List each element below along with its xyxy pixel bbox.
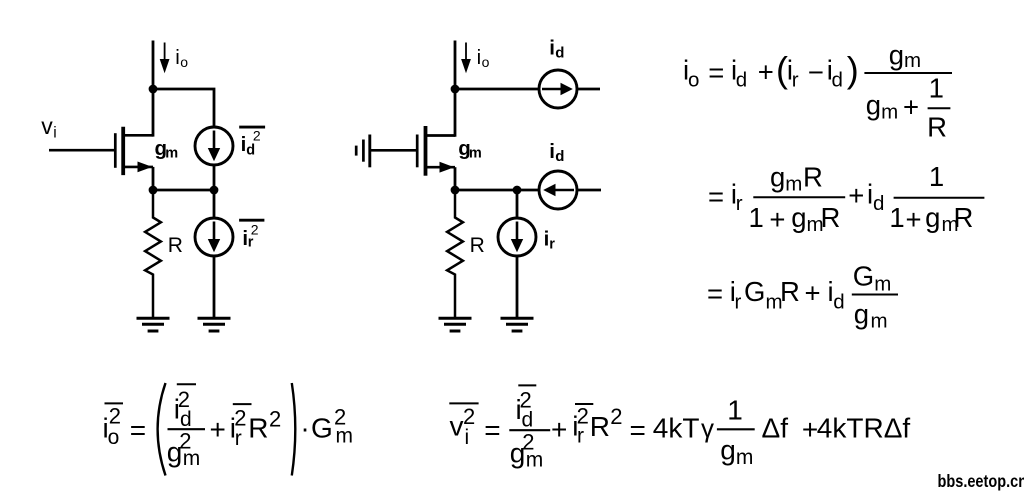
svg-text:d: d (555, 148, 564, 165)
label io middle (477, 46, 490, 70)
svg-text:o: o (482, 54, 490, 70)
label id lower (549, 140, 564, 165)
current source id top (539, 70, 577, 108)
svg-text:1: 1 (889, 202, 904, 233)
transistor M2 channel bar (424, 126, 428, 176)
wire ir to ground (516, 256, 519, 319)
wire id2 to lower node (213, 165, 216, 192)
svg-text:v: v (450, 410, 464, 441)
ground middle R (439, 318, 472, 331)
wire gate lead middle (371, 149, 417, 152)
svg-text:r: r (792, 68, 799, 91)
EQUATION 1: io = id + (ir - id) gm/(gm+1/R) (683, 39, 952, 142)
svg-text:g: g (925, 202, 940, 233)
svg-text:m: m (881, 100, 898, 123)
svg-text:R: R (248, 413, 268, 444)
svg-text:γ: γ (701, 413, 714, 443)
current source id lower (539, 171, 577, 209)
wire M2 drain lead (426, 134, 456, 137)
label id top (549, 36, 564, 61)
EQUATION 3: = ir GmR + id Gm/gm (707, 260, 898, 332)
node branch left (210, 186, 219, 195)
svg-text:m: m (871, 309, 888, 332)
svg-text:g: g (889, 39, 904, 70)
svg-text:i: i (53, 124, 56, 141)
svg-text:m: m (183, 447, 201, 470)
svg-text:o: o (688, 68, 699, 91)
svg-text:+: + (210, 414, 226, 445)
svg-text:=: = (484, 415, 500, 446)
svg-text:1: 1 (929, 161, 944, 192)
svg-text:R: R (954, 202, 974, 233)
wire after id top (577, 88, 600, 91)
svg-text:G: G (744, 276, 765, 307)
svg-text:m: m (469, 146, 482, 162)
svg-text:+: + (805, 278, 821, 309)
wire top node horizontal (153, 89, 214, 128)
svg-text:bbs.eetop.cn: bbs.eetop.cn (938, 472, 1024, 492)
svg-text:m: m (336, 425, 354, 448)
node ir branch (513, 186, 522, 195)
svg-text:−: − (808, 57, 824, 88)
label id2 (241, 128, 261, 159)
wire drain vertical middle (454, 41, 457, 137)
svg-text:+: + (802, 414, 818, 445)
svg-text:1: 1 (749, 202, 764, 233)
svg-text:m: m (165, 146, 178, 162)
wire gate lead left (49, 149, 114, 152)
svg-text:o: o (108, 426, 120, 449)
current source id2 (195, 127, 233, 165)
EQUATION 4: io2 = (id2/gm2 + ir2 R2) Gm2 (103, 383, 354, 476)
svg-text:g: g (866, 90, 881, 121)
svg-text:+: + (848, 180, 864, 211)
svg-text:g: g (770, 162, 785, 193)
wire drain vertical to io terminal (152, 41, 155, 137)
svg-text:R: R (821, 202, 841, 233)
wire ir2 to ground (213, 256, 216, 319)
svg-text:+: + (551, 414, 567, 445)
svg-text:m: m (874, 272, 891, 295)
svg-text:=: = (708, 57, 724, 88)
svg-text:o: o (180, 54, 188, 70)
arrow io middle (461, 43, 471, 74)
transistor M1 channel bar (121, 127, 125, 175)
svg-text:r: r (735, 291, 742, 314)
node top middle (451, 85, 460, 94)
svg-text:R: R (590, 411, 610, 442)
svg-text:d: d (832, 68, 843, 91)
svg-text:G: G (853, 260, 874, 291)
svg-text:R: R (470, 234, 485, 257)
wire M1 drain lead (123, 134, 153, 137)
svg-text:2: 2 (251, 222, 259, 238)
svg-text:d: d (736, 68, 747, 91)
wire source to lower node middle (454, 167, 457, 191)
svg-text:g: g (720, 435, 736, 466)
resistor R middle (447, 190, 463, 318)
wire lower horizontal middle (455, 189, 540, 192)
transistor M1 gate bar (114, 133, 117, 168)
svg-text:m: m (904, 49, 921, 72)
svg-text:d: d (246, 142, 255, 158)
label id2 overbar (239, 126, 265, 129)
svg-text:i: i (549, 36, 555, 59)
svg-text:·: · (300, 412, 309, 443)
svg-text:R: R (927, 112, 947, 143)
svg-text:g: g (854, 299, 869, 330)
svg-text:r: r (549, 237, 555, 253)
svg-text:d: d (555, 45, 564, 62)
svg-text:i: i (465, 426, 470, 449)
wire source to lower node (152, 167, 155, 191)
svg-text:1: 1 (929, 73, 944, 104)
svg-text:i: i (175, 46, 180, 69)
label ir (544, 228, 556, 253)
svg-text:g: g (791, 202, 806, 233)
wire M1 source lead (123, 166, 153, 169)
svg-text:r: r (736, 192, 743, 215)
svg-text:4kT: 4kT (653, 413, 700, 444)
wire ir top (516, 190, 519, 219)
svg-text:i: i (477, 46, 482, 69)
svg-text:d: d (522, 409, 534, 432)
current source ir (498, 218, 536, 256)
svg-text:i: i (549, 140, 555, 163)
svg-text:=: = (708, 181, 724, 212)
transistor M2 gate bar (416, 135, 419, 168)
svg-text:2: 2 (269, 407, 281, 432)
svg-text:d: d (873, 192, 884, 215)
svg-text:+: + (769, 204, 785, 235)
svg-text:m: m (736, 446, 754, 469)
svg-text:m: m (526, 448, 544, 471)
svg-text:R: R (780, 276, 800, 307)
ground left ir2 (198, 318, 231, 331)
svg-text:2: 2 (109, 404, 121, 429)
svg-text:+: + (758, 56, 774, 87)
resistor R left (145, 190, 161, 318)
EQUATION 2: = ir gmR/(1+gmR) + id 1/(1+gmR) (708, 161, 984, 236)
wire top node to id source (455, 88, 540, 91)
label vi (41, 113, 56, 142)
svg-text:): ) (847, 49, 859, 90)
arrow M1 source (138, 162, 153, 173)
svg-text:G: G (311, 413, 333, 444)
ground at gate (356, 135, 370, 168)
wire after id lower (577, 189, 601, 192)
label ir2 overbar (239, 219, 264, 222)
wire lower node horizontal (153, 189, 214, 192)
svg-text:r: r (235, 427, 242, 450)
node source left (149, 186, 158, 195)
svg-text:+: + (906, 204, 922, 235)
svg-text:=: = (130, 414, 146, 445)
wire ir2 top (213, 190, 216, 219)
svg-text:m: m (785, 172, 802, 195)
svg-text:v: v (41, 113, 53, 139)
label io left (175, 46, 188, 70)
svg-text:+: + (903, 91, 919, 122)
node source middle (451, 186, 460, 195)
svg-text:1: 1 (727, 395, 743, 426)
current source ir2 (195, 218, 233, 256)
EQUATION 5: vi2 = id2/gm2 + ir2R2 = 4kTgamma/gm df + 4kTRdf (449, 385, 910, 471)
svg-text:R: R (168, 234, 183, 257)
svg-text:=: = (707, 278, 723, 309)
ground middle ir (501, 318, 534, 331)
svg-text:r: r (577, 425, 584, 448)
label ir2 (242, 222, 258, 251)
arrow M2 source (440, 162, 455, 173)
svg-text:d: d (833, 291, 844, 314)
svg-text:Δf: Δf (762, 413, 789, 444)
wire M2 source lead (426, 166, 456, 169)
arrow io left (160, 43, 170, 74)
svg-text:R: R (803, 162, 823, 193)
svg-text:2: 2 (610, 404, 622, 429)
label gm left (155, 137, 179, 162)
svg-text:2: 2 (253, 128, 261, 144)
node top left (149, 85, 158, 94)
label gm middle (458, 137, 482, 162)
svg-text:=: = (630, 414, 646, 445)
ground left R (137, 318, 170, 331)
svg-text:4kTRΔf: 4kTRΔf (817, 413, 911, 444)
